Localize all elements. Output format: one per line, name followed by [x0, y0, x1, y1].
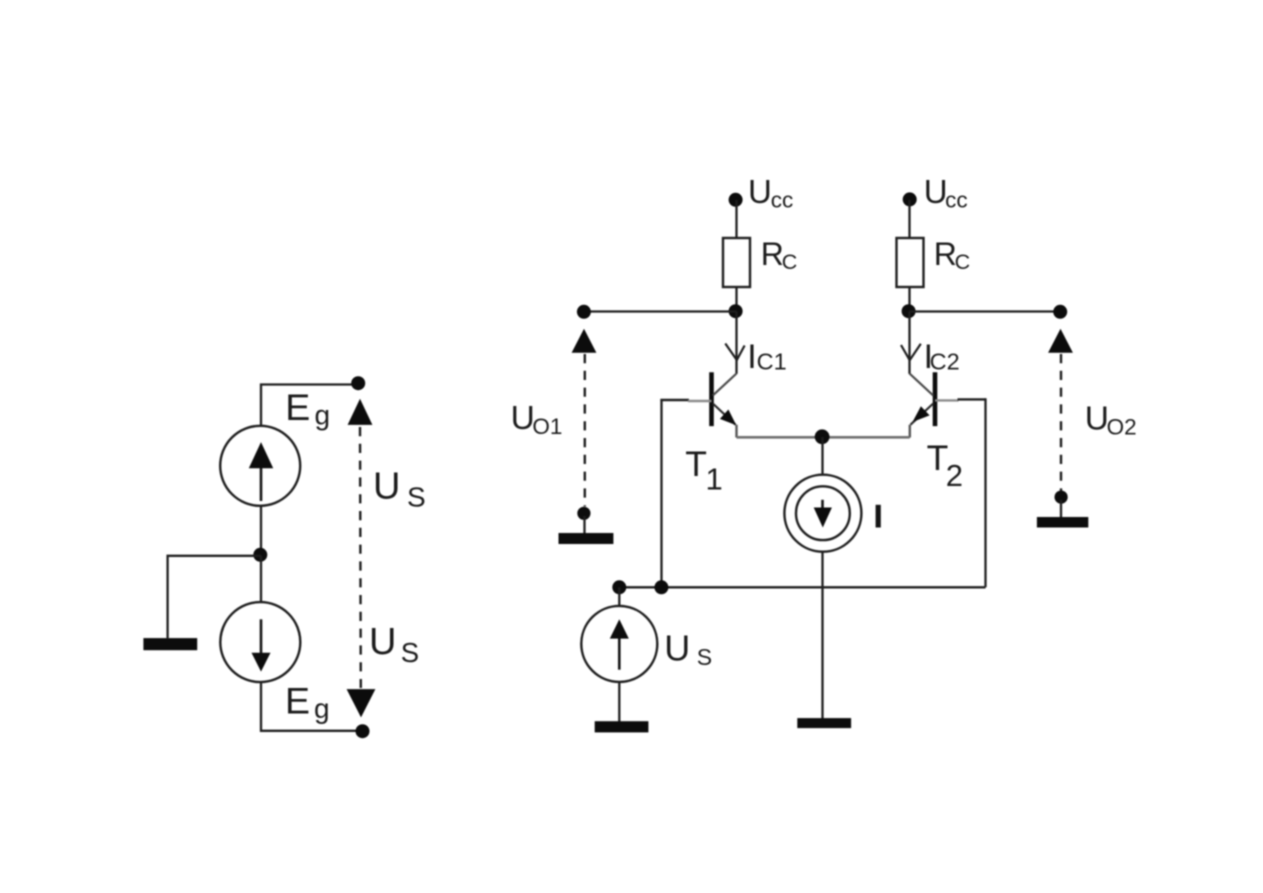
- svg-text:C1: C1: [757, 349, 787, 375]
- svg-text:g: g: [314, 693, 330, 724]
- wire RC1 to collector node: [735, 287, 737, 312]
- svg-text:C: C: [955, 250, 971, 274]
- ground (left circuit): [143, 638, 197, 650]
- resistor RC (right): [897, 238, 924, 287]
- node collector T1: [729, 304, 743, 318]
- ground current source: [797, 718, 851, 728]
- label Eg (bottom): [285, 680, 330, 725]
- supply terminal Ucc (left): [729, 193, 743, 207]
- label Eg (top): [285, 386, 330, 431]
- svg-text:U: U: [1085, 401, 1109, 438]
- ground US: [595, 721, 649, 732]
- node collector T2: [902, 304, 916, 318]
- label US (upper, left circuit): [373, 466, 426, 513]
- emitter wire T1: [735, 425, 737, 438]
- wire between sources: [260, 506, 262, 556]
- wire US top: [618, 587, 620, 606]
- svg-text:U: U: [373, 466, 400, 508]
- wire collector T2 down: [908, 312, 910, 374]
- wire Eg2 to bottom node: [261, 682, 363, 731]
- svg-text:cc: cc: [945, 187, 968, 212]
- svg-text:C: C: [782, 250, 798, 274]
- svg-text:S: S: [407, 482, 426, 513]
- wire node to current source: [821, 437, 823, 475]
- svg-text:U: U: [369, 621, 396, 663]
- base line T2 down: [984, 398, 986, 587]
- node UO2 bottom: [1055, 491, 1068, 504]
- voltage source Eg (top): [220, 426, 300, 506]
- svg-text:R: R: [934, 236, 957, 272]
- base wire T2: [935, 399, 986, 400]
- arrowhead UO2 up: [1048, 329, 1073, 353]
- base bus wire: [619, 586, 985, 588]
- node UO1 top: [577, 305, 591, 319]
- svg-text:I: I: [747, 338, 756, 376]
- label IC1: [747, 338, 786, 376]
- svg-text:O1: O1: [532, 414, 562, 439]
- node top-right: [351, 376, 365, 390]
- wire current source to ground: [821, 552, 823, 719]
- svg-text:O2: O2: [1107, 415, 1137, 440]
- svg-text:U: U: [748, 173, 772, 210]
- svg-text:g: g: [315, 400, 331, 431]
- voltage source Eg (bottom): [220, 602, 300, 682]
- svg-text:cc: cc: [771, 187, 794, 212]
- svg-text:1: 1: [706, 462, 723, 497]
- base line T1 down: [660, 399, 662, 587]
- wire RC2 to collector node: [908, 287, 910, 312]
- emitter wire T2: [909, 425, 911, 438]
- voltage source US: [581, 606, 657, 682]
- wire US to ground: [618, 682, 620, 722]
- wire collector T1 down: [735, 312, 737, 374]
- wire Ucc to RC1: [735, 200, 737, 238]
- label I: [876, 505, 881, 528]
- svg-text:U: U: [924, 173, 948, 210]
- current arrow IC2: [901, 344, 921, 360]
- dashed line US (left circuit): [359, 427, 362, 688]
- node UO1 bottom: [577, 507, 590, 520]
- svg-text:E: E: [285, 680, 310, 722]
- transistor T1: [712, 372, 737, 426]
- arrowhead UO1 up: [572, 329, 597, 353]
- wire to ground (left circuit): [168, 556, 261, 638]
- svg-text:2: 2: [946, 458, 963, 493]
- supply terminal Ucc (right): [903, 192, 917, 206]
- svg-text:U: U: [664, 628, 690, 669]
- svg-text:R: R: [761, 236, 784, 272]
- node emitters: [815, 429, 830, 444]
- svg-text:S: S: [401, 637, 419, 668]
- node US top: [612, 580, 626, 594]
- svg-text:S: S: [697, 644, 712, 670]
- wire node to Eg2: [260, 556, 262, 603]
- label UO2: [1085, 401, 1137, 440]
- svg-text:U: U: [511, 400, 535, 437]
- emitter bus wire: [737, 436, 910, 439]
- wire collector node to UO2: [910, 310, 1061, 312]
- arrowhead US down (left circuit): [347, 689, 376, 717]
- dashed line UO1: [584, 354, 586, 506]
- transistor T2: [910, 372, 936, 426]
- node bottom-right: [356, 724, 370, 738]
- current source I: [784, 475, 861, 552]
- dashed line UO2: [1060, 354, 1062, 491]
- resistor RC (left): [723, 238, 750, 287]
- label Ucc (left): [748, 173, 793, 212]
- node middle: [253, 548, 267, 562]
- wire Ucc to RC2: [908, 200, 910, 238]
- label US (lower, left circuit): [369, 621, 419, 668]
- ground UO1: [559, 533, 614, 544]
- wire top from Eg1 to node: [261, 385, 358, 426]
- label US: [664, 628, 712, 671]
- node UO2 top: [1053, 305, 1067, 319]
- label UO1: [511, 400, 563, 439]
- label RC (left): [761, 236, 797, 274]
- label T2: [927, 438, 963, 493]
- current arrow IC1: [725, 344, 744, 361]
- svg-text:C2: C2: [930, 349, 960, 375]
- stub UO2 to ground: [1060, 500, 1062, 518]
- label Ucc (right): [924, 173, 968, 212]
- stub UO1 to ground: [583, 516, 585, 534]
- base wire T1: [660, 400, 711, 401]
- arrowhead US up (left circuit): [348, 399, 373, 425]
- label RC (right): [934, 236, 970, 274]
- wire collector node to UO1: [584, 310, 737, 312]
- node base T1 junction: [654, 580, 668, 594]
- label T1: [685, 444, 722, 497]
- ground UO2: [1037, 517, 1088, 528]
- svg-text:T: T: [685, 444, 707, 484]
- svg-text:E: E: [285, 386, 310, 428]
- label IC2: [924, 338, 960, 376]
